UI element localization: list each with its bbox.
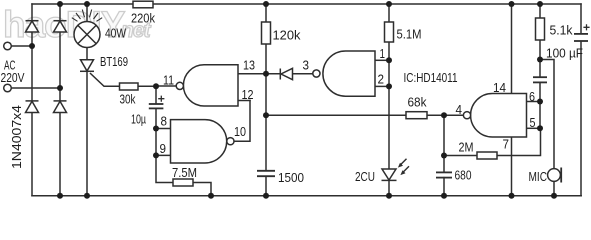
- C1 plus sign: [158, 96, 164, 102]
- wire C5 to pin6 node: [539, 83, 541, 102]
- svg-text:5.1k: 5.1k: [550, 23, 573, 38]
- node pin1: [386, 57, 392, 63]
- wire node C to 68k: [266, 114, 406, 116]
- photodiode light arrow 2: [400, 166, 409, 175]
- NAND gate U1a pins 1,2 in 3 out: [313, 51, 375, 96]
- svg-text:120k: 120k: [273, 28, 301, 43]
- wire pin12 stub: [238, 100, 250, 102]
- capacitor C5 coupling: [533, 77, 547, 82]
- wire node E to R9: [444, 155, 477, 157]
- wire pin6 stub: [527, 101, 541, 103]
- wire R4 to bottom rail: [193, 183, 211, 196]
- diode D3 bridge: [26, 101, 39, 113]
- svg-text:MIC: MIC: [529, 169, 548, 184]
- node B pin13: [263, 71, 269, 77]
- wire node F to MIC: [540, 60, 554, 169]
- AC terminal 2: [4, 84, 12, 92]
- resistor R2 30k: [120, 83, 139, 90]
- node rail MIC: [551, 193, 557, 199]
- svg-text:68k: 68k: [408, 95, 427, 110]
- wire top rail: [32, 3, 581, 5]
- node pin2: [386, 83, 392, 89]
- svg-text:3: 3: [303, 58, 310, 73]
- diode D2 bridge: [54, 21, 67, 32]
- wire 30k to node A: [138, 85, 156, 87]
- resistor R4 7.5M: [173, 179, 193, 186]
- node pin5: [537, 125, 543, 131]
- wire pin5 stub: [527, 127, 541, 129]
- wire node C down to C2: [265, 115, 267, 170]
- wire bridge column 1: [31, 4, 33, 196]
- svg-text:14: 14: [493, 80, 506, 95]
- svg-text:7.5M: 7.5M: [172, 165, 197, 180]
- node top rail / 120k: [263, 1, 269, 7]
- node F 5.1k bottom: [537, 57, 543, 63]
- wire pin9 down to R4: [156, 155, 173, 182]
- wire C2 to bottom rail: [265, 176, 267, 195]
- node top rail / column2: [57, 1, 63, 7]
- wire MIC to bottom rail: [553, 181, 555, 195]
- microphone MIC: [548, 168, 562, 183]
- wire R9 to pin5 node: [497, 128, 541, 155]
- svg-text:40W: 40W: [105, 26, 127, 41]
- resistor R3 120k: [262, 22, 271, 44]
- thyristor SCR BT169: [80, 60, 94, 72]
- svg-text:4: 4: [456, 102, 463, 117]
- wire pin2 stub: [375, 85, 389, 87]
- svg-text:30k: 30k: [120, 92, 136, 107]
- capacitor C4 680: [436, 172, 452, 177]
- wire pin14 to top rail: [511, 4, 513, 94]
- wire pin13 to node B: [238, 73, 266, 75]
- wire 5.1M to pin1 node: [388, 42, 390, 60]
- NAND gate U1b pins 5,6 in 4 out: [463, 94, 526, 138]
- wire lamp to SCR: [86, 48, 88, 60]
- watermark haoDIY.net: [3, 4, 152, 45]
- wire C1 to pin8 node: [155, 108, 157, 128]
- op-amp style NAND gate U1d pins 12,13 in 11 out: [176, 65, 238, 106]
- wire pin8 stub: [156, 128, 171, 130]
- wire pin1 node to photodiode: [388, 60, 390, 169]
- wire 120k to node B: [265, 44, 267, 74]
- wire node A to gate U1d output bubble: [156, 85, 176, 87]
- svg-text:2CU: 2CU: [355, 169, 375, 184]
- node rail SCR: [84, 193, 90, 199]
- diode D4 bridge: [54, 101, 67, 113]
- resistor R5 5.1M: [385, 22, 394, 42]
- node E 2M left: [441, 153, 447, 159]
- wire node F to C5: [539, 60, 541, 78]
- svg-text:5.1M: 5.1M: [397, 27, 422, 42]
- node top rail / lamp: [84, 1, 90, 7]
- wire AC live lead: [11, 45, 32, 47]
- svg-text:2M: 2M: [459, 140, 474, 155]
- lamp EL 40W: [72, 10, 102, 48]
- wire 68k to node D: [427, 114, 444, 116]
- resistor R8 5.1k: [536, 18, 545, 40]
- wire 5.1M top: [388, 4, 390, 22]
- node rail 2CU: [386, 193, 392, 199]
- wire pin7 to bottom rail: [511, 137, 513, 196]
- svg-text:680: 680: [455, 168, 472, 183]
- svg-text:6: 6: [529, 89, 535, 104]
- svg-text:5: 5: [530, 115, 536, 130]
- wire node E to C4: [443, 156, 445, 173]
- wire node B down to node C: [265, 74, 267, 115]
- wire C4 to bottom rail: [443, 178, 445, 196]
- node C 68k left: [263, 112, 269, 118]
- node pin6: [537, 99, 543, 105]
- diode D1 bridge: [26, 21, 39, 32]
- AC terminal 1: [4, 42, 12, 50]
- svg-text:2: 2: [378, 72, 385, 87]
- wire 5.1k to node F: [539, 40, 541, 60]
- wire 5.1k top: [539, 4, 541, 18]
- photodiode light arrow 1: [398, 159, 407, 168]
- wire 100uF branch top: [580, 4, 582, 34]
- capacitor C6 100uF electrolytic: [574, 34, 588, 41]
- svg-text:7: 7: [503, 137, 510, 152]
- node AC1: [29, 43, 35, 49]
- svg-text:8: 8: [161, 114, 168, 129]
- svg-text:9: 9: [160, 141, 167, 156]
- resistor R1 220k (in top rail): [133, 1, 153, 8]
- wire pin8 to pin9: [155, 129, 157, 156]
- svg-text:BT169: BT169: [100, 54, 128, 69]
- node A gate/cap: [153, 83, 159, 89]
- wire pin1 stub: [375, 59, 389, 61]
- NAND gate U1c pins 8,9 in 10 out: [171, 120, 234, 163]
- wire AC neutral lead: [11, 87, 60, 89]
- svg-text:11: 11: [163, 73, 174, 88]
- photodiode 2CU: [382, 169, 397, 180]
- svg-text:10µ: 10µ: [131, 112, 146, 127]
- node top rail / 5.1M: [386, 1, 392, 7]
- resistor R9 2M: [477, 152, 497, 159]
- svg-text:13: 13: [243, 58, 255, 73]
- node rail 7.5M: [208, 193, 214, 199]
- wire photodiode to bottom rail: [388, 180, 390, 195]
- wire D5 to gate U1a output bubble: [293, 73, 313, 75]
- wire pin9 stub: [156, 154, 171, 156]
- capacitor C1 10u electrolytic: [149, 104, 164, 108]
- wire SCR cathode to bottom rail: [86, 71, 88, 196]
- node rail 1500: [263, 193, 269, 199]
- node rail pin7: [509, 193, 515, 199]
- wire pin6 node to pin5 node: [539, 102, 541, 129]
- wire lamp top: [86, 4, 88, 22]
- wire bottom rail: [32, 195, 581, 197]
- node rail col2: [57, 193, 63, 199]
- svg-text:IC:HD14011: IC:HD14011: [404, 70, 458, 85]
- wire SCR gate to 30k: [91, 74, 120, 87]
- svg-text:10: 10: [234, 124, 246, 139]
- svg-text:220k: 220k: [131, 11, 155, 26]
- wire 100uF branch bottom: [580, 41, 582, 196]
- wire node B to diode D5: [266, 73, 281, 75]
- wire bridge column 2: [59, 4, 61, 196]
- node AC2: [57, 85, 63, 91]
- node top rail / pin14: [509, 1, 515, 7]
- svg-text:100 µF: 100 µF: [546, 46, 583, 61]
- resistor R6 68k: [406, 112, 427, 119]
- node rail 680: [441, 193, 447, 199]
- svg-text:220V: 220V: [1, 70, 25, 85]
- node D pin4: [441, 112, 447, 118]
- svg-text:1: 1: [380, 46, 386, 61]
- capacitor C2 1500: [257, 171, 275, 176]
- C6 plus sign: [583, 24, 589, 30]
- wire node D down to node E: [443, 115, 445, 155]
- wire node D to gate U1b output bubble: [444, 114, 463, 116]
- diode D5: [280, 68, 292, 79]
- svg-text:1N4007x4: 1N4007x4: [9, 105, 24, 169]
- node top rail / 5.1k: [537, 1, 543, 7]
- wire node A down to C1: [155, 86, 157, 103]
- svg-text:12: 12: [242, 87, 254, 102]
- svg-text:1500: 1500: [278, 170, 304, 185]
- node pin8: [153, 126, 159, 132]
- node pin9: [153, 152, 159, 158]
- wire gate U1c output to pin12: [234, 101, 250, 142]
- wire 120k top: [265, 4, 267, 22]
